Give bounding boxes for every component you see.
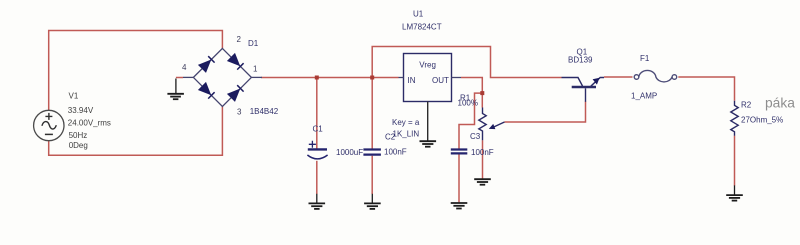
svg-text:50Hz: 50Hz [69, 131, 88, 140]
svg-text:V1: V1 [69, 91, 79, 100]
svg-text:2: 2 [237, 35, 242, 44]
ground at C3 [451, 203, 468, 209]
wire node to C3 top [459, 93, 482, 148]
svg-text:27Ohm_5%: 27Ohm_5% [741, 115, 783, 124]
svg-text:IN: IN [408, 76, 416, 85]
svg-text:1_AMP: 1_AMP [631, 92, 657, 101]
junction node OUT / R1 / C3 [480, 91, 484, 95]
diode D1d lower-right [228, 85, 244, 101]
ground at bridge pin4 [167, 79, 184, 100]
svg-text:LM7824CT: LM7824CT [402, 23, 442, 32]
wire R1 wiper to Q1 collector [505, 102, 586, 123]
op-amp U1 regulator box [404, 54, 452, 102]
fuse F1 [634, 70, 677, 82]
pin stub OUT [452, 77, 462, 79]
svg-text:C1: C1 [313, 125, 324, 134]
capacitor C1 [307, 141, 327, 159]
svg-text:D1: D1 [248, 39, 259, 48]
svg-text:1: 1 [253, 64, 258, 73]
pin stub IN [399, 77, 404, 79]
svg-text:4: 4 [182, 63, 187, 72]
bridge rectifier D1 [183, 48, 262, 106]
svg-text:3: 3 [237, 107, 242, 116]
wire fuse F1 to R2 top [678, 77, 734, 101]
svg-text:Key = a: Key = a [392, 118, 420, 127]
svg-text:páka: páka [765, 96, 795, 111]
svg-text:Vreg: Vreg [419, 60, 436, 69]
svg-text:C3: C3 [470, 132, 481, 141]
diode D1c lower-left [199, 83, 215, 99]
diode D1a upper-left [199, 56, 215, 72]
wire U1 OUT to node [461, 78, 482, 108]
wire bypass rail over regulator to Q1 base [372, 47, 561, 78]
transistor Q1 [562, 78, 605, 102]
wire top loop V1 to bridge pin2 [49, 31, 223, 111]
svg-text:0Deg: 0Deg [69, 141, 88, 150]
voltage source V1 [34, 110, 64, 140]
svg-text:1K_LIN: 1K_LIN [393, 129, 420, 138]
ground at R1 [474, 179, 491, 185]
svg-text:OUT: OUT [432, 76, 449, 85]
wire Q1 emitter to fuse F1 [604, 76, 633, 78]
wire C1 bottom lead [316, 161, 318, 194]
emitter arrowhead Q1 [593, 78, 600, 85]
potentiometer R1 [479, 108, 505, 141]
wire R2 bottom to ground [734, 136, 736, 186]
svg-text:R2: R2 [741, 100, 752, 109]
svg-text:1000uF: 1000uF [336, 148, 363, 157]
wire C2 bottom lead [371, 156, 373, 194]
junction node at C2 / bypass [370, 76, 374, 80]
wire bottom loop V1 to bridge pin3 [49, 106, 223, 155]
wire C1 top lead [316, 78, 318, 149]
junction node at C1 [315, 76, 319, 80]
wire C3 bottom to ground [458, 154, 460, 202]
svg-text:24.00V_rms: 24.00V_rms [68, 119, 111, 128]
wire main rail bridge pin1 to U1 IN [261, 77, 399, 79]
svg-text:U1: U1 [413, 9, 424, 18]
ground at C2 [364, 194, 381, 209]
svg-text:100nF: 100nF [471, 148, 494, 157]
svg-text:1B4B42: 1B4B42 [250, 107, 279, 116]
wire R1 pot bottom to ground [482, 140, 484, 179]
svg-text:33.94V: 33.94V [68, 106, 94, 115]
svg-text:F1: F1 [640, 54, 650, 63]
ground at U1 GND pin [420, 102, 437, 147]
svg-text:100nF: 100nF [384, 148, 407, 157]
capacitor C2 [363, 150, 381, 155]
ground at C1 [309, 194, 326, 209]
svg-text:100%: 100% [458, 99, 478, 108]
capacitor C3 [451, 150, 468, 154]
wire bridge pin4 to ground [176, 77, 183, 79]
resistor R2 [731, 101, 738, 136]
svg-text:BD139: BD139 [568, 56, 593, 65]
ground at R2 [726, 185, 743, 200]
wiper arrowhead R1 [489, 124, 496, 129]
wire C2 top lead [371, 78, 373, 149]
diode D1b upper-right [228, 54, 244, 70]
